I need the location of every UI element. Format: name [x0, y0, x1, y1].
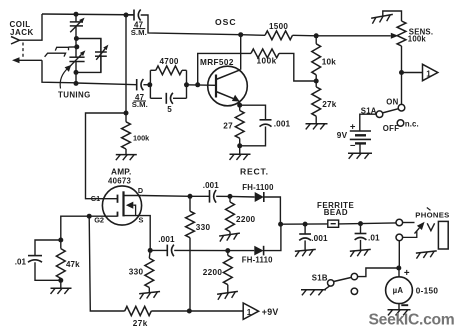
svg-text:2200: 2200	[236, 215, 256, 224]
resistor 330 source	[148, 250, 151, 258]
svg-text:+: +	[350, 122, 356, 133]
svg-text:FH-1100: FH-1100	[242, 183, 274, 192]
svg-text:FH-1110: FH-1110	[242, 256, 273, 265]
node det in lower	[225, 248, 230, 253]
wire tuning bottom	[75, 72, 77, 83]
svg-text:S1B: S1B	[312, 274, 328, 283]
svg-text:.001: .001	[158, 235, 175, 244]
wire drain lead	[124, 195, 142, 197]
wire osc top rail	[141, 15, 241, 35]
wire jack tip to top rail	[20, 14, 43, 40]
wire filter rail b	[339, 223, 396, 224]
wire tank to base	[187, 84, 217, 87]
ground .01 filter	[350, 249, 371, 256]
coil jack sleeve arrow	[20, 59, 43, 61]
svg-text:330: 330	[129, 267, 144, 276]
phone jack sleeve	[438, 221, 448, 249]
svg-text:1: 1	[426, 69, 431, 78]
switch S1A pole	[376, 111, 383, 118]
label meter minus	[401, 304, 408, 306]
capacitor .01 filter	[360, 224, 362, 234]
node meter top	[396, 266, 401, 271]
node rect out	[278, 222, 283, 227]
wire G2 down to rail	[89, 216, 125, 311]
svg-text:9V: 9V	[337, 131, 348, 140]
svg-text:.001: .001	[203, 181, 219, 190]
ground battery	[359, 143, 361, 153]
ground .001 filter	[295, 249, 316, 256]
node filter cap1	[303, 222, 308, 227]
ground 330 source	[139, 292, 160, 300]
node G2	[87, 214, 92, 219]
svg-text:OFF: OFF	[383, 124, 400, 133]
node collector osc rail	[238, 32, 243, 37]
resistor 27	[239, 105, 241, 110]
svg-text:n.c.: n.c.	[405, 119, 419, 128]
ground 27k	[306, 124, 328, 130]
svg-text:100k: 100k	[133, 133, 150, 142]
node top rail / tuning C1	[74, 12, 79, 17]
wire drain rail	[142, 195, 190, 198]
coil jack tip contact	[11, 37, 20, 45]
wire pot top	[383, 11, 402, 21]
svg-text:40673: 40673	[108, 177, 132, 186]
wire C2 to tank	[143, 84, 149, 86]
variable capacitor C-tune3	[100, 39, 102, 52]
svg-text:BEAD: BEAD	[324, 208, 348, 217]
switch S1B pole	[328, 280, 334, 286]
svg-text:G1: G1	[91, 196, 100, 203]
node source cap	[148, 248, 153, 253]
diode FH-1110	[228, 250, 255, 252]
resistor 2200 upper	[229, 196, 231, 202]
tuning pointer arrow	[60, 68, 68, 89]
node G1 junction	[124, 111, 129, 116]
capacitor C-47sm-top	[126, 14, 134, 16]
ground emitter	[239, 146, 241, 155]
svg-text:D: D	[138, 186, 143, 195]
svg-text:10k: 10k	[322, 57, 337, 66]
resistor 2200 lower	[227, 251, 229, 256]
svg-text:5: 5	[167, 105, 172, 114]
resistor 330 drain	[189, 196, 191, 211]
svg-text:27k: 27k	[322, 100, 337, 109]
resistor 100k bias	[251, 49, 279, 58]
capacitor .01 g2	[35, 240, 61, 255]
wire S1B to meter node	[358, 268, 399, 277]
battery 9V	[350, 130, 371, 132]
svg-text:.001: .001	[274, 120, 291, 129]
wire G2 lead	[89, 215, 117, 217]
capacitor .001 filter	[304, 224, 306, 234]
capacitor C-47sm-2	[136, 79, 138, 90]
node tuning bottom rail	[74, 81, 79, 86]
resistor 1500	[241, 34, 265, 37]
wire meter node down	[398, 268, 400, 277]
resistor 4700	[150, 69, 155, 71]
ground 47k	[60, 280, 62, 288]
wire bias feedback	[198, 53, 251, 84]
wire 100k to divider	[279, 53, 316, 81]
wire jack tip	[403, 222, 415, 224]
ground meter	[398, 304, 400, 310]
mosfet U1 40673	[102, 186, 141, 225]
wire emitter down	[239, 101, 241, 105]
potentiometer SENS 100k	[397, 21, 406, 46]
node base bias tap	[195, 82, 200, 87]
wire rail to connector	[151, 310, 243, 312]
node emitter ground	[237, 143, 242, 148]
capacitor 5	[150, 97, 162, 99]
ground 2200 upper	[219, 233, 241, 241]
svg-text:AMP.: AMP.	[111, 166, 131, 176]
node rail 10k	[314, 33, 319, 38]
svg-text:µA: µA	[393, 286, 404, 295]
off-page connector 1 +9V	[243, 303, 258, 319]
node pot bottom	[399, 70, 404, 75]
node 47k bottom	[58, 278, 63, 283]
node drain	[188, 194, 193, 199]
resistor 27k bottom	[125, 306, 152, 315]
wire filter rail a	[281, 223, 328, 225]
jack switch contact lower	[396, 234, 403, 241]
svg-text:.01: .01	[368, 234, 380, 243]
wire jack to meter node	[398, 241, 400, 268]
wire tank right edge	[186, 70, 188, 98]
transistor Q1 MRF502	[208, 66, 248, 106]
svg-text:47k: 47k	[66, 260, 80, 269]
dashed jack body	[22, 43, 24, 59]
svg-text:.001: .001	[311, 234, 328, 243]
svg-text:SeekIC.com: SeekIC.com	[369, 312, 455, 329]
svg-text:S.M.: S.M.	[131, 28, 147, 37]
wire vertical junction line	[125, 15, 127, 113]
node trimmer tap	[74, 44, 79, 49]
svg-text:ON: ON	[386, 97, 398, 106]
svg-text:.01: .01	[15, 257, 27, 266]
phone jack spring	[427, 223, 434, 230]
node tank left	[147, 82, 152, 87]
switch S1B contact a	[351, 273, 357, 279]
switch S1A ON contact	[398, 104, 405, 111]
wire tuning branch box	[76, 39, 101, 73]
node emitter	[237, 103, 242, 108]
node cap junction	[124, 13, 129, 18]
svg-text:330: 330	[196, 223, 211, 232]
wire top rail	[42, 13, 134, 16]
wire collector up	[240, 35, 242, 70]
node det in	[228, 194, 233, 199]
node rail 330	[187, 309, 192, 314]
switch S1A nc contact	[397, 120, 404, 127]
ground pot top	[371, 14, 394, 23]
off-page connector 1 top	[423, 64, 438, 80]
phone jack tip arrow	[415, 228, 420, 234]
node filter cap2	[358, 221, 363, 226]
svg-text:RECT.: RECT.	[240, 167, 269, 177]
svg-text:100k: 100k	[257, 56, 277, 65]
resistor 47k	[60, 240, 62, 249]
capacitor .001 emitter	[240, 105, 266, 119]
jack switch contact upper	[396, 219, 403, 226]
node tuning branch bottom	[74, 70, 79, 75]
ground 2200 lower	[217, 291, 239, 299]
wire pole to battery	[360, 114, 376, 131]
wire G2 to 47k	[61, 216, 89, 240]
svg-text:1: 1	[247, 308, 252, 317]
wire pot to switch	[401, 73, 403, 105]
svg-text:1500: 1500	[269, 22, 288, 31]
wire source lead	[124, 216, 151, 251]
capacitor .001 drain	[190, 195, 210, 197]
wire pot to buffer	[402, 72, 423, 74]
svg-text:TUNING: TUNING	[58, 90, 91, 99]
ground phones	[416, 251, 437, 259]
wire tank left edge	[149, 70, 151, 98]
ground 100k	[116, 155, 137, 161]
resistor 10k	[315, 36, 317, 44]
svg-text:+9V: +9V	[262, 307, 279, 317]
resistor 27k	[315, 81, 317, 87]
meter M1 uA	[386, 277, 413, 304]
wire tuning to C2	[76, 83, 137, 85]
wire jack sleeve to bottom rail	[42, 60, 76, 83]
svg-text:2200: 2200	[203, 268, 223, 277]
svg-text:27: 27	[223, 122, 233, 131]
diode FH-1100	[230, 195, 255, 198]
ground S1B	[325, 286, 330, 290]
resistor 100k gate	[125, 113, 127, 122]
variable capacitor C-tune2	[75, 39, 77, 57]
svg-text:PHONES: PHONES	[415, 210, 449, 219]
ferrite bead FB1	[328, 220, 339, 227]
svg-text:MRF502: MRF502	[200, 58, 234, 67]
trimmer marks	[69, 46, 77, 48]
wire junction to G1	[86, 113, 127, 199]
svg-text:S.M.: S.M.	[132, 100, 148, 109]
node tank right	[184, 82, 189, 87]
svg-text:100k: 100k	[408, 35, 427, 44]
svg-text:0-150: 0-150	[416, 286, 439, 295]
capacitor .001 source	[150, 249, 167, 251]
variable capacitor C-tune1	[75, 14, 77, 21]
svg-text:OSC: OSC	[215, 17, 237, 27]
node 47k top	[58, 238, 63, 243]
wire rail to pot	[316, 35, 391, 37]
switch S1B contact b	[351, 288, 357, 294]
svg-text:JACK: JACK	[10, 28, 34, 37]
node tuning branch top	[74, 36, 79, 41]
svg-text:4700: 4700	[160, 57, 179, 66]
svg-text:S: S	[139, 216, 144, 225]
svg-text:27k: 27k	[133, 319, 148, 328]
node divider mid	[314, 79, 319, 84]
svg-text:−: −	[350, 140, 356, 151]
